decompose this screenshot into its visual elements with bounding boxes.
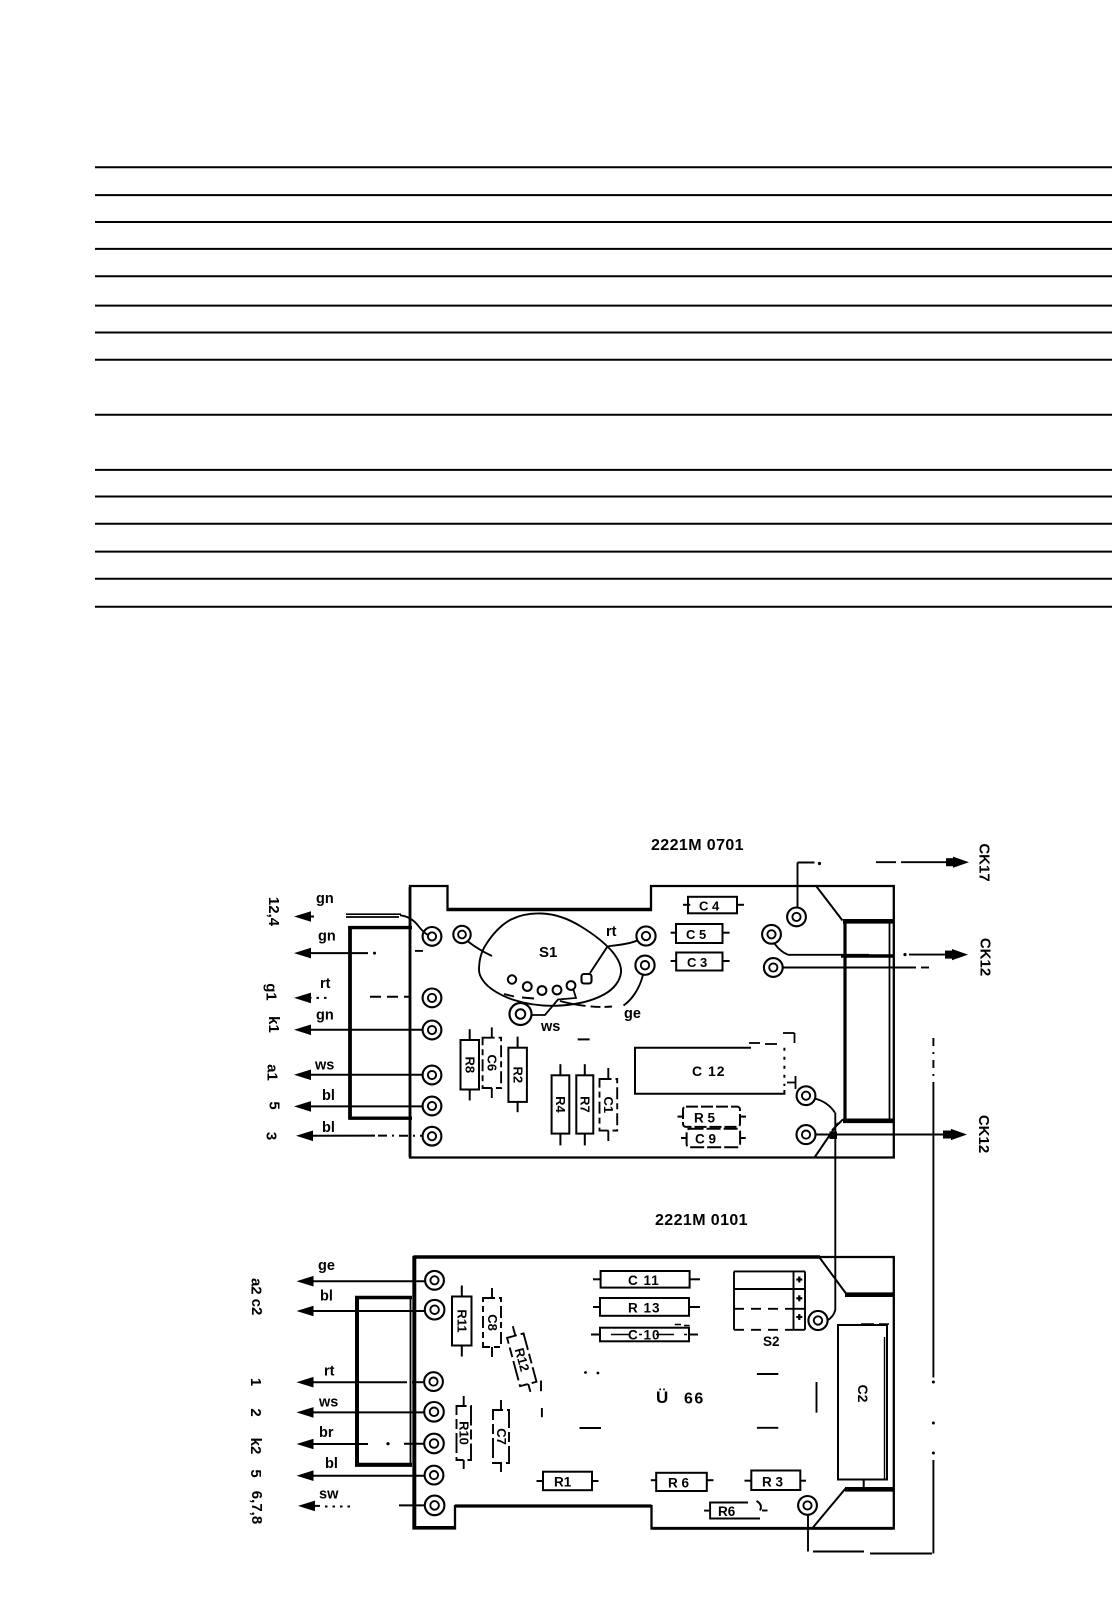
resistor R10 (457, 1396, 472, 1469)
capacitor C5 (671, 924, 730, 943)
pad near C4 (CK17) (787, 908, 806, 927)
svg-text:gn: gn (316, 1008, 334, 1024)
wire ws (297, 1395, 425, 1418)
edge connector of upper board (815, 887, 894, 1158)
svg-text:2: 2 (247, 1408, 264, 1416)
pad ws (424, 1402, 444, 1422)
svg-text:rt: rt (320, 976, 331, 992)
pad 1b (453, 926, 470, 943)
svg-text:ge: ge (318, 1258, 335, 1274)
svg-text:5: 5 (266, 1101, 283, 1109)
svg-text:2221M 0701: 2221M 0701 (651, 837, 744, 854)
board 2221M 0101 outline (414, 1257, 894, 1529)
svg-text:R6: R6 (718, 1504, 736, 1519)
svg-text:ws: ws (314, 1058, 334, 1074)
pad bottom-right of lower board (798, 1496, 817, 1515)
wire sw (298, 1487, 425, 1512)
wire ge (297, 1258, 425, 1286)
capacitor C2 (838, 1324, 889, 1488)
resistor R3 (745, 1471, 807, 1491)
svg-text:ws: ws (540, 1019, 560, 1035)
svg-text:sw: sw (319, 1487, 339, 1503)
svg-text:gn: gn (316, 891, 334, 907)
cable from bottom-right pad to route line (808, 1515, 932, 1554)
svg-text:C 12: C 12 (692, 1063, 726, 1079)
capacitor C7 (493, 1400, 509, 1472)
svg-text:C6: C6 (485, 1054, 500, 1071)
capacitor C11 (593, 1271, 700, 1288)
resistor R7 (576, 1064, 593, 1145)
dashed trace along S1 bottom (504, 994, 612, 1007)
svg-text:C7: C7 (494, 1428, 509, 1445)
arrow CK12 (bottom) (816, 1115, 993, 1153)
svg-text:1: 1 (247, 1378, 264, 1386)
board 2221M 0701 outline (410, 886, 894, 1158)
svg-text:C 9: C 9 (695, 1132, 716, 1147)
pad ge (425, 1271, 444, 1290)
resistor R9 (reads R 6) (651, 1473, 714, 1491)
resistor R13 (593, 1298, 700, 1316)
svg-text:R 5: R 5 (694, 1111, 716, 1126)
svg-text:bl: bl (322, 1120, 335, 1136)
svg-text:CK17: CK17 (976, 843, 993, 881)
svg-text:bl: bl (322, 1088, 335, 1104)
pad sw (425, 1496, 445, 1516)
svg-text:C 4: C 4 (699, 899, 720, 914)
svg-text:C 10: C 10 (628, 1328, 661, 1343)
svg-text:k1: k1 (265, 1016, 282, 1033)
pad bl (425, 1300, 445, 1320)
svg-text:R11: R11 (455, 1309, 470, 1332)
resistor R6 (704, 1501, 767, 1519)
resistor R12 (tilted) (505, 1324, 539, 1394)
dashed outline around U66 (541, 1371, 817, 1428)
capacitor C3 (671, 953, 730, 971)
connector S2 (734, 1271, 805, 1329)
S1 contact circles (508, 974, 592, 995)
trace ge pad downward (624, 975, 644, 1006)
pad (CK12 mid) (762, 925, 781, 944)
svg-text:C8: C8 (485, 1314, 500, 1331)
resistor R8 (461, 1029, 480, 1100)
capacitor C4 (683, 897, 744, 914)
trace ws pad to S1 contacts (532, 990, 577, 1015)
wire bl (row 6) (297, 1456, 425, 1481)
svg-text:k2: k2 (247, 1438, 264, 1455)
cable bundle box (upper board) (348, 926, 412, 1119)
svg-text:bl: bl (320, 1289, 333, 1305)
svg-text:a2: a2 (248, 1278, 265, 1295)
switch S1 blob (479, 913, 621, 1005)
pad rt (top of S1) (636, 926, 655, 945)
svg-text:6,7,8: 6,7,8 (248, 1491, 265, 1524)
svg-text:R2: R2 (510, 1066, 525, 1083)
svg-text:R 13: R 13 (628, 1301, 661, 1316)
arrow CK17 (798, 843, 993, 908)
trace rt pad to S1 (590, 941, 638, 974)
svg-text:Ü: Ü (656, 1388, 668, 1407)
resistor R11 (452, 1286, 472, 1357)
svg-text:R4: R4 (553, 1096, 568, 1113)
svg-text:5: 5 (247, 1469, 264, 1477)
svg-text:g1: g1 (263, 983, 280, 1001)
wire bl (297, 1289, 425, 1317)
stray tick above R7 (578, 1038, 590, 1040)
pad near S2 (808, 1311, 827, 1330)
cable route line (right, dash-dot) (932, 1038, 935, 1554)
svg-text:C 11: C 11 (628, 1273, 660, 1288)
capacitor C12 (635, 1033, 796, 1094)
pad br (424, 1434, 444, 1454)
pad 5 (bl) (423, 1097, 442, 1116)
edge connector of lower board (813, 1258, 894, 1529)
capacitor C9 (681, 1129, 746, 1147)
svg-text:S1: S1 (539, 944, 557, 961)
svg-text:C 3: C 3 (687, 955, 707, 970)
pad lower-right B (797, 1125, 816, 1144)
wire from pad y967 (783, 967, 929, 969)
svg-text:S2: S2 (763, 1334, 780, 1349)
svg-text:R 6: R 6 (668, 1476, 690, 1491)
wire gn (row 2) (294, 929, 423, 959)
pad bl2 (425, 1466, 444, 1485)
svg-text:c2: c2 (248, 1299, 265, 1316)
wire bl (row 6) (294, 1088, 423, 1112)
resistor R1 (537, 1472, 599, 1491)
pad 4 (ws) (423, 1066, 442, 1085)
pad 3 (gn) (423, 1021, 442, 1040)
resistor R4 (552, 1064, 570, 1145)
wire br (297, 1425, 425, 1449)
svg-text:br: br (319, 1425, 334, 1441)
svg-text:R10: R10 (457, 1421, 472, 1445)
pad 2 (rt) (423, 989, 442, 1008)
capacitor C1 (600, 1068, 618, 1141)
wire gn (row 1) (294, 891, 429, 936)
svg-text:ge: ge (624, 1006, 641, 1022)
pad 6 (bl) (423, 1127, 442, 1146)
svg-text:R1: R1 (554, 1475, 572, 1490)
pad ge (right of S1) (635, 956, 654, 975)
svg-text:ws: ws (318, 1395, 338, 1411)
svg-text:R 3: R 3 (762, 1475, 784, 1490)
pad lower-right A (797, 1086, 816, 1105)
capacitor C10 (591, 1325, 698, 1342)
wire rt (297, 1364, 424, 1388)
svg-text:66: 66 (684, 1391, 705, 1408)
capacitor C8 (483, 1288, 501, 1357)
trace from pad 1b (468, 942, 492, 957)
svg-text:2221M 0101: 2221M 0101 (655, 1212, 748, 1229)
pad (y967) (764, 958, 783, 977)
pad 1 (gn) (423, 927, 442, 946)
svg-text:gn: gn (318, 929, 336, 945)
svg-text:CK12: CK12 (977, 938, 994, 976)
resistor R5 (678, 1107, 747, 1127)
wire gn (row 4) (294, 1008, 423, 1036)
pad ws (510, 1003, 532, 1025)
wire bl (row 7) (296, 1120, 422, 1141)
arrow CK12 (middle) (775, 938, 994, 976)
svg-text:bl: bl (325, 1456, 338, 1472)
svg-text:CK12: CK12 (975, 1115, 992, 1153)
svg-text:C1: C1 (601, 1096, 616, 1113)
wire rt (row 3) (294, 976, 410, 1003)
svg-text:a1: a1 (264, 1064, 281, 1081)
cable bundle box (lower board) (355, 1298, 412, 1466)
ruled lines (blank table) (95, 167, 1112, 607)
wire ws (row 5) (294, 1058, 423, 1081)
resistor R2 (508, 1037, 527, 1113)
svg-text:12,4: 12,4 (265, 897, 282, 927)
svg-text:C2: C2 (855, 1385, 871, 1403)
svg-text:rt: rt (606, 924, 617, 940)
capacitor C6 (483, 1027, 502, 1098)
svg-text:C 5: C 5 (686, 927, 706, 942)
svg-text:rt: rt (324, 1364, 335, 1380)
pad rt (424, 1372, 443, 1391)
svg-text:R7: R7 (578, 1096, 593, 1113)
svg-text:3: 3 (263, 1132, 280, 1140)
svg-text:R8: R8 (463, 1056, 478, 1073)
cable from pad A (upper board) to pad near S2 (lower board) (815, 1099, 836, 1321)
